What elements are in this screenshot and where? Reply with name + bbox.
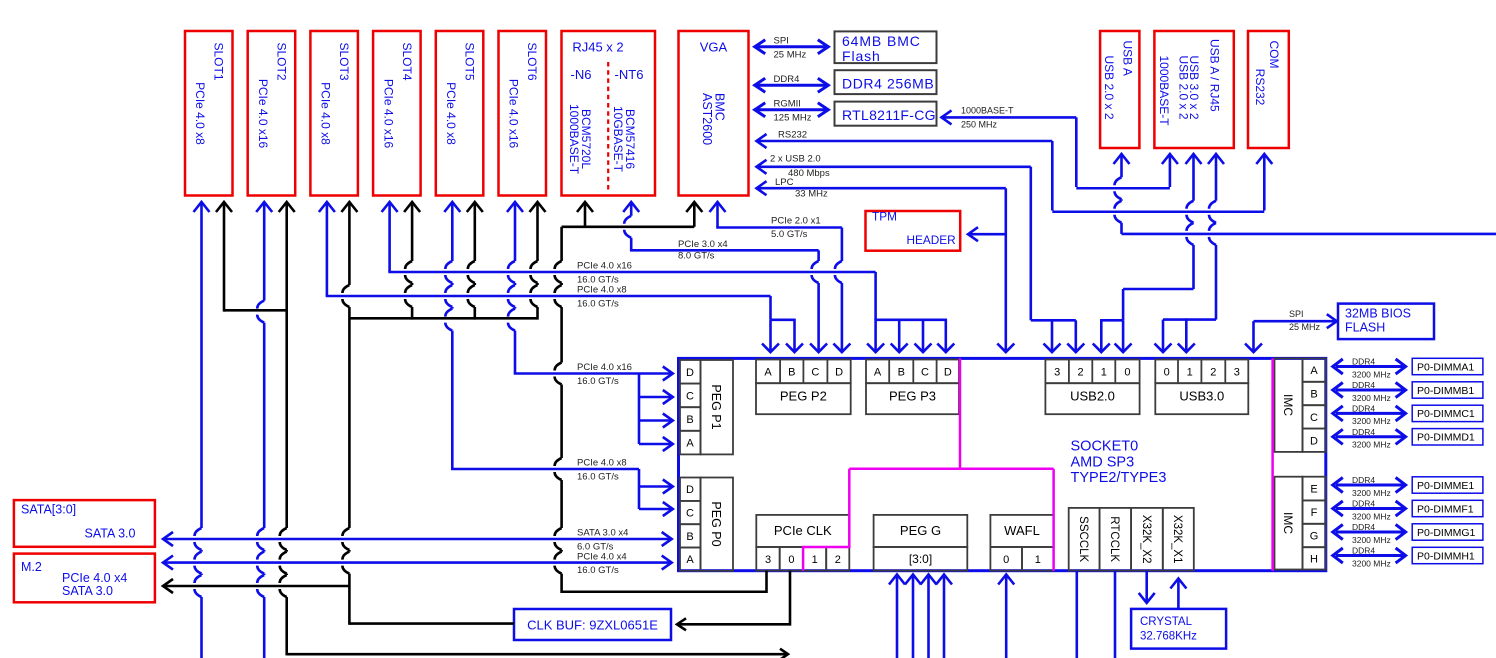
svg-text:PCIe 3.0 x4: PCIe 3.0 x4 <box>678 239 728 250</box>
svg-text:X32K_X1: X32K_X1 <box>1171 515 1183 564</box>
PCIe slot box SLOT1 (PCIe 4.0 x8) <box>185 31 233 196</box>
SOCKET0 outer box <box>679 358 1326 570</box>
PEG P1 block with lanes D C B A <box>680 360 733 454</box>
svg-text:USB2.0: USB2.0 <box>1070 389 1115 404</box>
wire M.2 PCIe 4.0 x4 16.0 GT/s (M.2 box to PEG P0 A) <box>163 551 672 576</box>
RTCCLK pin box <box>1100 508 1132 571</box>
wire VGA PCIe 2.0 x1 5.0 GT/s to PEG P2 D <box>710 202 851 352</box>
svg-text:FLASH: FLASH <box>1345 321 1385 335</box>
wire USB A port (to right edge) <box>1114 154 1496 234</box>
svg-text:DDR4: DDR4 <box>1352 546 1375 556</box>
svg-text:M.2: M.2 <box>21 560 42 574</box>
COM box (RS232) <box>1248 31 1289 148</box>
svg-text:-N6: -N6 <box>571 67 592 82</box>
svg-text:CLK BUF: 9ZXL0651E: CLK BUF: 9ZXL0651E <box>527 618 658 633</box>
svg-text:C: C <box>811 367 819 379</box>
svg-text:PCIe 4.0 x8: PCIe 4.0 x8 <box>444 82 458 145</box>
svg-text:16.0 GT/s: 16.0 GT/s <box>577 275 619 286</box>
svg-text:SATA 3.0: SATA 3.0 <box>85 527 136 541</box>
svg-text:PCIe 4.0 x8: PCIe 4.0 x8 <box>193 82 207 145</box>
svg-text:PCIe 4.0 x4: PCIe 4.0 x4 <box>577 551 627 562</box>
wire M.2 SATA 3.0 (black) <box>163 579 349 593</box>
svg-text:0: 0 <box>788 554 794 566</box>
svg-text:2: 2 <box>835 554 841 566</box>
svg-text:PCIe 4.0 x16: PCIe 4.0 x16 <box>381 79 395 149</box>
svg-text:250 MHz: 250 MHz <box>961 120 998 130</box>
svg-text:DDR4: DDR4 <box>1352 427 1375 437</box>
svg-text:3200 MHz: 3200 MHz <box>1352 558 1391 568</box>
wire DDR4 3200 MHz channel E <box>1333 475 1406 498</box>
wire combo USB 2.0 x 2 (to USB2.0 ports 1 0) <box>1093 154 1202 352</box>
svg-text:3: 3 <box>1234 367 1240 379</box>
PEG P0 block with lanes D C B A <box>680 478 733 571</box>
svg-text:5.0 GT/s: 5.0 GT/s <box>771 229 808 240</box>
svg-text:3200 MHz: 3200 MHz <box>1352 511 1391 521</box>
IMC block (channels A-D) <box>1275 358 1326 452</box>
wire slot2 clock (black, joins slot1, to CLK tree bottom) <box>279 202 788 658</box>
svg-text:2 x USB 2.0: 2 x USB 2.0 <box>770 154 821 165</box>
svg-text:SLOT5: SLOT5 <box>462 43 476 81</box>
wire slot3-6 clock joining line (black, y=319.6) <box>349 317 537 320</box>
wire slot1 PCIe bus (blue, to bottom edge) <box>194 202 210 658</box>
DIMM slot box P0-DIMMC1 <box>1412 405 1483 421</box>
svg-text:P0-DIMMC1: P0-DIMMC1 <box>1417 408 1475 420</box>
svg-text:AMD SP3: AMD SP3 <box>1071 454 1135 470</box>
svg-text:B: B <box>898 367 905 379</box>
wire SATA 3.0 x4 6.0 GT/s (SATA box to PEG P0 B) <box>163 528 672 553</box>
wire X32K_X2 to crystal <box>1139 571 1155 603</box>
svg-text:1: 1 <box>1035 554 1041 566</box>
svg-text:A: A <box>1310 365 1318 377</box>
svg-text:3200 MHz: 3200 MHz <box>1352 535 1391 545</box>
DIMM slot box P0-DIMMA1 <box>1412 358 1483 374</box>
DDR4 256MB box <box>835 70 937 94</box>
svg-text:3: 3 <box>765 554 771 566</box>
svg-text:PEG P0: PEG P0 <box>709 501 723 546</box>
svg-text:P0-DIMMB1: P0-DIMMB1 <box>1417 385 1474 397</box>
wire slot2 PCIe bus (blue, to bottom edge) <box>256 202 272 658</box>
svg-text:RTCCLK: RTCCLK <box>1108 516 1120 562</box>
svg-text:32.768KHz: 32.768KHz <box>1140 631 1197 643</box>
USB3.0 block with ports 0 1 2 3 <box>1155 360 1248 415</box>
svg-text:A: A <box>686 554 694 566</box>
svg-text:PCIe CLK: PCIe CLK <box>774 523 832 538</box>
wire slot4 clock (black) <box>404 202 420 320</box>
svg-text:P0-DIMMD1: P0-DIMMD1 <box>1417 432 1475 444</box>
svg-text:TPM: TPM <box>872 210 897 224</box>
wire SPI 25 MHz (socket to BIOS flash) <box>1245 309 1337 352</box>
wire RJ45 clock (black) <box>577 202 593 227</box>
svg-text:PCIe 4.0 x16: PCIe 4.0 x16 <box>507 79 521 149</box>
svg-text:3: 3 <box>1054 367 1060 379</box>
svg-text:H: H <box>1310 553 1318 565</box>
svg-text:A: A <box>764 367 772 379</box>
DIMM slot box P0-DIMMH1 <box>1412 547 1483 563</box>
svg-text:SLOT3: SLOT3 <box>337 43 351 81</box>
wire combo USB 3.0 x 2 (to USB3.0 ports 0 1) <box>1155 154 1225 352</box>
wire slot3 PCIe 4.0 x8 16.0 GT/s to PEG P2 A B <box>319 202 803 352</box>
svg-text:PCIe 4.0 x4: PCIe 4.0 x4 <box>62 571 127 585</box>
svg-text:A: A <box>686 438 694 450</box>
svg-text:P0-DIMMF1: P0-DIMMF1 <box>1417 503 1474 515</box>
wire 1000BASE-T 250 MHz (PHY to combo RJ45) <box>942 105 1178 188</box>
svg-text:COM: COM <box>1267 41 1281 69</box>
svg-text:DDR4: DDR4 <box>774 74 800 85</box>
svg-text:USB A: USB A <box>1121 41 1135 76</box>
svg-text:1000BASE-T: 1000BASE-T <box>567 104 581 175</box>
wire DDR4 3200 MHz channel G <box>1333 522 1406 545</box>
wire VGA/BMC clock (black) <box>686 202 702 227</box>
64MB BMC Flash box <box>835 31 937 64</box>
wire slot6 PCIe 4.0 x16 16.0 GT/s to PEG P1 D-A <box>507 202 673 451</box>
svg-text:SATA 3.0: SATA 3.0 <box>62 584 113 598</box>
wire PCIe CLK 0 to CLK BUF (black) <box>677 571 790 631</box>
svg-text:B: B <box>686 414 693 426</box>
svg-text:C: C <box>686 508 694 520</box>
svg-text:DDR4: DDR4 <box>1352 475 1375 485</box>
svg-text:16.0 GT/s: 16.0 GT/s <box>577 299 619 310</box>
SPI 25 MHz bus (BMC to flash) <box>755 36 829 61</box>
svg-text:USB 2.0 x 2: USB 2.0 x 2 <box>1102 56 1116 120</box>
svg-text:[3:0]: [3:0] <box>909 552 932 566</box>
svg-text:P0-DIMMH1: P0-DIMMH1 <box>1417 550 1475 562</box>
svg-text:25 MHz: 25 MHz <box>774 50 807 61</box>
svg-text:1000BASE-T: 1000BASE-T <box>1157 56 1171 127</box>
USB A box (USB 2.0 x 2) <box>1100 31 1139 148</box>
CLK BUF 9ZXL0651E box <box>514 609 671 640</box>
wire PCIe CLK 3 to RJ45/VGA (black, long vertical) <box>555 227 767 593</box>
PEG G [3:0] block <box>874 515 968 571</box>
wire DDR4 3200 MHz channel F <box>1333 499 1406 522</box>
wire slot5 PCIe 4.0 x8 16.0 GT/s to PEG P0 D C <box>444 202 673 516</box>
RJ45 x 2 box (BCM5720L / BCM57416) <box>562 31 656 196</box>
svg-text:DDR4: DDR4 <box>1352 357 1375 367</box>
svg-text:D: D <box>686 367 694 379</box>
svg-text:RS232: RS232 <box>1253 69 1267 106</box>
svg-text:SPI: SPI <box>1289 309 1304 319</box>
svg-text:DDR4: DDR4 <box>1352 499 1375 509</box>
RTL8211F-CG PHY box <box>835 102 937 126</box>
svg-text:16.0 GT/s: 16.0 GT/s <box>577 376 619 387</box>
wire slot1 clock (black) <box>216 202 287 312</box>
svg-text:USB3.0: USB3.0 <box>1179 389 1224 404</box>
svg-text:USB A / RJ45: USB A / RJ45 <box>1208 39 1222 112</box>
svg-text:PCIe 4.0 x8: PCIe 4.0 x8 <box>577 458 627 469</box>
DIMM slot box P0-DIMMB1 <box>1412 382 1483 398</box>
svg-text:WAFL: WAFL <box>1004 523 1040 538</box>
wire DDR4 3200 MHz channel H <box>1333 546 1406 569</box>
PEG P2 block with lanes A B C D <box>756 360 851 415</box>
svg-text:-NT6: -NT6 <box>615 67 644 82</box>
svg-text:SLOT1: SLOT1 <box>212 43 226 81</box>
wire slot5 clock (black) <box>467 202 483 320</box>
wire slot3 clock (black, to CLK BUF) <box>341 202 514 625</box>
SOCKET0 AMD SP3 TYPE2/TYPE3 label <box>1071 439 1167 487</box>
svg-text:PEG P1: PEG P1 <box>709 384 723 429</box>
svg-text:16.0 GT/s: 16.0 GT/s <box>577 471 619 482</box>
wire crystal to X32K_X1 <box>1170 579 1186 609</box>
CRYSTAL 32.768KHz box <box>1131 609 1226 649</box>
wire DDR4 3200 MHz channel C <box>1333 404 1406 427</box>
svg-text:CRYSTAL: CRYSTAL <box>1140 616 1193 628</box>
svg-text:P0-DIMMG1: P0-DIMMG1 <box>1417 527 1476 539</box>
svg-text:G: G <box>1310 531 1319 543</box>
magenta TYPE boundary path (PEG G / WAFL region) <box>803 358 1054 570</box>
wire RS232 (BMC to COM) <box>757 130 1273 212</box>
svg-text:1: 1 <box>1101 367 1107 379</box>
RGMII 125 MHz bus (BMC to PHY) <box>755 99 829 124</box>
DIMM slot box P0-DIMMD1 <box>1412 429 1483 445</box>
svg-text:F: F <box>1311 507 1318 519</box>
USB2.0 block with ports 3 2 1 0 <box>1045 360 1139 415</box>
svg-text:SLOT4: SLOT4 <box>400 43 414 81</box>
svg-text:B: B <box>788 367 795 379</box>
VGA / BMC AST2600 box <box>679 31 749 196</box>
DDR4 bus (BMC to DDR4 256MB) <box>755 74 829 92</box>
PCIe CLK block with outputs 3 0 1 2 <box>756 515 849 571</box>
svg-text:PCIe 4.0 x16: PCIe 4.0 x16 <box>577 362 632 373</box>
WAFL block with ports 0 1 <box>990 515 1053 571</box>
wire WAFL 0 (to bottom edge) <box>998 575 1014 658</box>
PCIe slot box SLOT4 (PCIe 4.0 x16) <box>373 31 421 196</box>
svg-text:LPC: LPC <box>775 177 794 188</box>
svg-text:C: C <box>686 390 694 402</box>
svg-text:DDR4: DDR4 <box>1352 380 1375 390</box>
svg-text:0: 0 <box>1003 554 1009 566</box>
wire RJ45/VGA clock joining line (black, y=226.8) <box>562 226 695 229</box>
IMC block (channels E-H) <box>1275 477 1326 570</box>
svg-text:C: C <box>1310 412 1318 424</box>
svg-text:SPI: SPI <box>774 36 789 47</box>
svg-text:RTL8211F-CG: RTL8211F-CG <box>842 107 936 123</box>
svg-text:E: E <box>1310 484 1317 496</box>
PCIe slot box SLOT6 (PCIe 4.0 x16) <box>499 31 547 196</box>
magenta TYPE boundary vertical line (before IMC) <box>1271 358 1274 570</box>
svg-text:3200 MHz: 3200 MHz <box>1352 369 1391 379</box>
svg-text:SATA[3:0]: SATA[3:0] <box>21 503 76 517</box>
USB A / RJ45 combo box <box>1154 31 1233 148</box>
svg-text:8.0 GT/s: 8.0 GT/s <box>678 251 715 262</box>
svg-text:D: D <box>944 367 952 379</box>
svg-text:B: B <box>686 531 693 543</box>
svg-text:D: D <box>686 484 694 496</box>
svg-text:0: 0 <box>1164 367 1170 379</box>
M.2 box (PCIe 4.0 x4 / SATA 3.0) <box>14 554 155 603</box>
svg-text:DDR4: DDR4 <box>1352 522 1375 532</box>
svg-text:3200 MHz: 3200 MHz <box>1352 488 1391 498</box>
svg-text:Flash: Flash <box>842 48 881 64</box>
svg-text:2: 2 <box>1078 367 1084 379</box>
SATA[3:0] box <box>14 500 155 547</box>
svg-text:P0-DIMME1: P0-DIMME1 <box>1417 480 1474 492</box>
svg-text:SLOT6: SLOT6 <box>525 43 539 81</box>
svg-text:RJ45 x 2: RJ45 x 2 <box>572 40 623 55</box>
svg-text:480 Mbps: 480 Mbps <box>788 168 830 179</box>
svg-text:33 MHz: 33 MHz <box>795 188 828 199</box>
svg-text:16.0 GT/s: 16.0 GT/s <box>577 565 619 576</box>
PCIe slot box SLOT3 (PCIe 4.0 x8) <box>310 31 358 196</box>
svg-text:3200 MHz: 3200 MHz <box>1352 416 1391 426</box>
wire DDR4 3200 MHz channel A <box>1333 357 1406 380</box>
svg-text:C: C <box>921 367 929 379</box>
SSCCLK pin box <box>1069 508 1100 571</box>
PCIe slot box SLOT2 (PCIe 4.0 x16) <box>248 31 296 196</box>
DIMM slot box P0-DIMMG1 <box>1412 524 1483 540</box>
svg-text:1: 1 <box>812 554 818 566</box>
svg-text:25 MHz: 25 MHz <box>1289 322 1321 332</box>
svg-text:PEG P3: PEG P3 <box>889 389 936 404</box>
wire 2 x USB 2.0 480 Mbps (BMC to USB2.0 ports 3 2) <box>757 154 1085 353</box>
svg-text:SLOT2: SLOT2 <box>274 43 288 81</box>
svg-text:PCIe 4.0 x8: PCIe 4.0 x8 <box>577 285 627 296</box>
svg-text:PCIe 4.0 x8: PCIe 4.0 x8 <box>319 82 333 145</box>
svg-text:32MB BIOS: 32MB BIOS <box>1345 307 1411 321</box>
32MB BIOS FLASH box <box>1338 304 1434 340</box>
wire PEG G [3:0] (4 lanes to bottom edge) <box>889 575 952 658</box>
svg-text:AST2600: AST2600 <box>700 93 714 145</box>
svg-text:B: B <box>1310 389 1317 401</box>
wire SSCCLK (to bottom edge) <box>1076 571 1079 658</box>
svg-text:DDR4 256MB: DDR4 256MB <box>842 76 934 92</box>
TPM HEADER box <box>866 210 961 251</box>
svg-text:IMC: IMC <box>1281 512 1295 534</box>
wire DDR4 3200 MHz channel D <box>1333 427 1406 450</box>
svg-text:D: D <box>835 367 843 379</box>
svg-text:RS232: RS232 <box>778 130 807 141</box>
svg-text:P0-DIMMA1: P0-DIMMA1 <box>1417 361 1474 373</box>
svg-text:1000BASE-T: 1000BASE-T <box>961 105 1014 115</box>
wire DDR4 3200 MHz channel B <box>1333 380 1406 403</box>
svg-text:PCIe 4.0 x16: PCIe 4.0 x16 <box>256 79 270 149</box>
X32K_X2 pin box <box>1131 508 1163 571</box>
svg-text:IMC: IMC <box>1281 394 1295 416</box>
PCIe slot box SLOT5 (PCIe 4.0 x8) <box>436 31 484 196</box>
svg-text:TYPE2/TYPE3: TYPE2/TYPE3 <box>1071 470 1167 486</box>
svg-text:PEG G: PEG G <box>900 523 941 538</box>
wire LPC 33 MHz (BMC to TPM header and socket) <box>757 177 1015 352</box>
svg-text:PEG P2: PEG P2 <box>780 389 827 404</box>
wire RJ45 PCIe 3.0 x4 8.0 GT/s to PEG P2 C <box>623 202 827 352</box>
svg-text:SOCKET0: SOCKET0 <box>1071 439 1139 455</box>
svg-text:125 MHz: 125 MHz <box>774 113 812 124</box>
svg-text:SSCCLK: SSCCLK <box>1077 516 1089 562</box>
svg-text:DDR4: DDR4 <box>1352 404 1375 414</box>
DIMM slot box P0-DIMME1 <box>1412 477 1483 493</box>
X32K_X1 pin box <box>1163 508 1194 571</box>
svg-text:SATA 3.0 x4: SATA 3.0 x4 <box>577 528 628 539</box>
svg-text:HEADER: HEADER <box>907 233 956 247</box>
svg-text:PCIe 4.0 x16: PCIe 4.0 x16 <box>577 261 632 272</box>
DIMM slot box P0-DIMMF1 <box>1412 500 1483 516</box>
svg-text:0: 0 <box>1124 367 1130 379</box>
svg-text:PCIe 2.0 x1: PCIe 2.0 x1 <box>771 216 821 227</box>
wire slot6 clock (black) <box>530 202 546 320</box>
svg-text:10GBASE-T: 10GBASE-T <box>611 106 625 173</box>
svg-text:1: 1 <box>1187 367 1193 379</box>
svg-text:3200 MHz: 3200 MHz <box>1352 393 1391 403</box>
svg-text:2: 2 <box>1210 367 1216 379</box>
svg-text:D: D <box>1310 435 1318 447</box>
PEG P3 block with lanes A B C D <box>866 360 959 415</box>
wire slot4 PCIe 4.0 x16 16.0 GT/s to PEG P3 A-D <box>382 202 955 352</box>
wire RTCCLK (to bottom edge) <box>1114 571 1117 658</box>
svg-text:64MB BMC: 64MB BMC <box>842 33 921 49</box>
svg-text:A: A <box>874 367 882 379</box>
svg-text:RGMII: RGMII <box>774 99 801 110</box>
svg-text:USB 2.0 x 2: USB 2.0 x 2 <box>1177 56 1191 120</box>
svg-text:VGA: VGA <box>700 40 728 55</box>
svg-text:3200 MHz: 3200 MHz <box>1352 440 1391 450</box>
svg-text:X32K_X2: X32K_X2 <box>1140 515 1152 564</box>
